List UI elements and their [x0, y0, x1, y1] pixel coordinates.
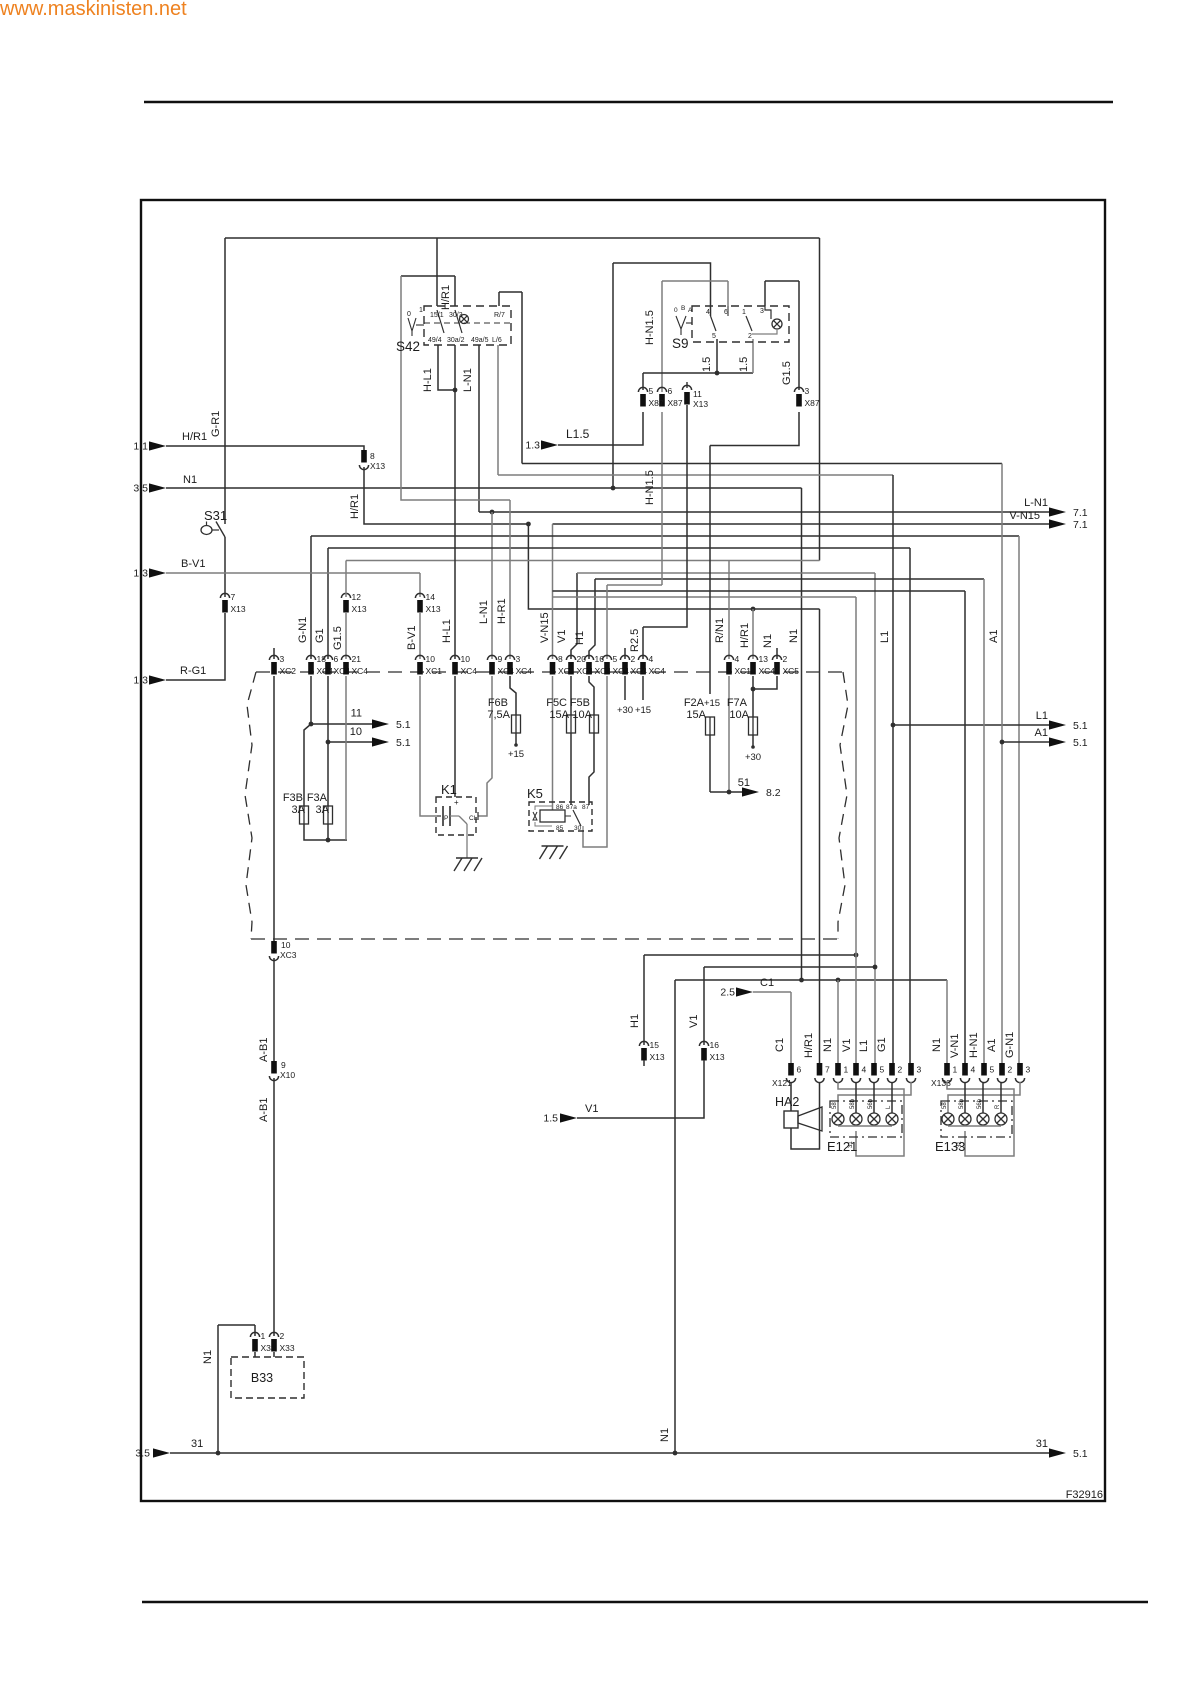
svg-text:5.1: 5.1: [1073, 737, 1088, 749]
svg-text:11: 11: [351, 708, 362, 720]
svg-text:86: 86: [556, 804, 564, 811]
svg-text:P: P: [444, 815, 448, 822]
svg-text:CL: CL: [469, 815, 478, 822]
svg-text:1: 1: [742, 309, 746, 316]
svg-text:G-N1: G-N1: [1004, 1032, 1016, 1058]
svg-text:G1.5: G1.5: [332, 626, 344, 650]
svg-text:14: 14: [426, 592, 436, 602]
svg-text:V-N15: V-N15: [1009, 510, 1040, 522]
svg-text:15A: 15A: [549, 709, 569, 721]
svg-text:21: 21: [352, 654, 362, 664]
svg-text:X13: X13: [370, 461, 385, 471]
svg-text:S42: S42: [396, 339, 420, 354]
svg-text:56b: 56b: [977, 1098, 983, 1109]
svg-text:R/N1: R/N1: [714, 618, 726, 643]
svg-text:X87: X87: [649, 398, 664, 408]
svg-text:A1: A1: [1035, 727, 1048, 739]
svg-text:31: 31: [957, 1141, 963, 1148]
svg-text:XC4: XC4: [631, 666, 648, 676]
svg-text:XC4: XC4: [516, 666, 533, 676]
svg-text:K5: K5: [527, 786, 543, 801]
svg-text:15A: 15A: [686, 709, 706, 721]
svg-text:87a: 87a: [566, 804, 577, 811]
svg-text:X10: X10: [280, 1070, 295, 1080]
svg-text:B-V1: B-V1: [181, 558, 205, 570]
svg-text:49/4: 49/4: [428, 337, 442, 344]
svg-text:1: 1: [953, 1065, 958, 1075]
svg-text:58b: 58b: [850, 1098, 856, 1109]
svg-text:B33: B33: [251, 1371, 273, 1385]
svg-text:H/R1: H/R1: [349, 494, 361, 519]
svg-text:15: 15: [650, 1040, 660, 1050]
svg-text:4: 4: [706, 309, 710, 316]
svg-text:2: 2: [631, 654, 636, 664]
svg-text:+30: +30: [745, 752, 761, 763]
svg-text:V1: V1: [556, 630, 568, 643]
svg-text:1.3: 1.3: [133, 675, 148, 687]
svg-text:2: 2: [783, 654, 788, 664]
svg-text:L/6: L/6: [492, 337, 502, 344]
svg-text:30/3: 30/3: [449, 312, 463, 319]
svg-text:N1: N1: [788, 629, 800, 643]
svg-text:5: 5: [649, 386, 654, 396]
svg-text:H-N1: H-N1: [968, 1032, 980, 1058]
svg-text:S31: S31: [204, 508, 227, 523]
svg-text:C1: C1: [760, 977, 774, 989]
svg-text:5: 5: [613, 654, 618, 664]
svg-text:7,5A: 7,5A: [487, 709, 510, 721]
svg-text:XC1: XC1: [735, 666, 752, 676]
svg-text:H/R1: H/R1: [739, 623, 751, 648]
svg-text:B-V1: B-V1: [406, 626, 418, 650]
svg-text:F2A: F2A: [684, 697, 705, 709]
svg-text:F6B: F6B: [488, 697, 508, 709]
svg-text:7: 7: [231, 592, 236, 602]
svg-text:X13: X13: [352, 604, 367, 614]
svg-text:H-N1.5: H-N1.5: [644, 470, 656, 505]
svg-text:8: 8: [558, 654, 563, 664]
svg-text:XC1: XC1: [426, 666, 443, 676]
svg-text:58b: 58b: [959, 1098, 965, 1109]
svg-text:N1: N1: [659, 1428, 671, 1442]
svg-text:12: 12: [352, 592, 362, 602]
svg-text:9: 9: [498, 654, 503, 664]
svg-text:N1: N1: [762, 634, 774, 648]
svg-text:7.1: 7.1: [1073, 507, 1088, 519]
svg-text:3: 3: [917, 1065, 922, 1075]
svg-text:8.2: 8.2: [766, 787, 781, 799]
svg-text:A-B1: A-B1: [258, 1038, 270, 1062]
svg-text:H1: H1: [574, 631, 586, 645]
svg-text:+30: +30: [617, 705, 633, 716]
svg-text:1: 1: [844, 1065, 849, 1075]
svg-text:G-R1: G-R1: [210, 411, 222, 437]
svg-text:18: 18: [317, 654, 327, 664]
svg-text:XC4: XC4: [759, 666, 776, 676]
svg-text:R2.5: R2.5: [629, 629, 641, 652]
svg-text:V-N1: V-N1: [949, 1034, 961, 1058]
svg-text:0: 0: [407, 311, 411, 318]
svg-text:+: +: [454, 798, 459, 807]
svg-text:15/1: 15/1: [430, 312, 444, 319]
svg-text:R-G1: R-G1: [180, 665, 206, 677]
svg-text:X121: X121: [772, 1078, 792, 1088]
svg-text:5.1: 5.1: [396, 719, 411, 731]
svg-text:A1: A1: [986, 1039, 998, 1052]
svg-text:31: 31: [848, 1141, 854, 1148]
svg-text:XC4: XC4: [461, 666, 478, 676]
svg-text:N1: N1: [931, 1038, 943, 1052]
svg-text:+15: +15: [704, 698, 720, 709]
svg-text:F32916: F32916: [1066, 1489, 1103, 1501]
svg-text:31: 31: [191, 1438, 203, 1450]
svg-text:X133: X133: [931, 1078, 951, 1088]
svg-text:XC3: XC3: [280, 950, 297, 960]
svg-text:8: 8: [370, 451, 375, 461]
svg-text:58: 58: [942, 1102, 948, 1109]
svg-text:3: 3: [760, 308, 764, 315]
svg-text:A1: A1: [988, 630, 1000, 643]
svg-text:49a/5: 49a/5: [471, 337, 489, 344]
svg-text:1.5: 1.5: [738, 357, 750, 372]
svg-text:G1.5: G1.5: [781, 361, 793, 385]
svg-text:3.5: 3.5: [133, 483, 148, 495]
svg-text:16: 16: [710, 1040, 720, 1050]
svg-text:H-N1.5: H-N1.5: [644, 310, 656, 345]
svg-text:F3A: F3A: [307, 792, 328, 804]
svg-text:+15: +15: [635, 705, 651, 716]
svg-text:N1: N1: [183, 474, 197, 486]
svg-text:3.5: 3.5: [135, 1448, 150, 1460]
svg-text:4: 4: [862, 1065, 867, 1075]
svg-text:10A: 10A: [729, 709, 749, 721]
svg-text:L1: L1: [879, 631, 891, 643]
svg-text:10: 10: [426, 654, 436, 664]
svg-text:4: 4: [649, 654, 654, 664]
svg-text:3: 3: [1026, 1065, 1031, 1075]
svg-text:www.maskinisten.net: www.maskinisten.net: [0, 0, 187, 20]
svg-text:5: 5: [880, 1065, 885, 1075]
svg-text:1: 1: [419, 307, 423, 314]
svg-text:11: 11: [693, 389, 702, 399]
svg-text:10A: 10A: [572, 709, 592, 721]
svg-text:H-L1: H-L1: [441, 619, 453, 643]
svg-text:HA2: HA2: [775, 1095, 799, 1109]
svg-text:10: 10: [350, 726, 362, 738]
svg-text:4: 4: [971, 1065, 976, 1075]
svg-text:X13: X13: [426, 604, 441, 614]
svg-text:L-N1: L-N1: [1024, 497, 1048, 509]
svg-text:X33: X33: [280, 1343, 295, 1353]
svg-text:V1: V1: [585, 1103, 598, 1115]
svg-text:2: 2: [748, 333, 752, 340]
svg-text:31: 31: [1036, 1438, 1048, 1450]
svg-text:30a/2: 30a/2: [447, 337, 465, 344]
svg-text:S9: S9: [672, 336, 689, 351]
svg-text:0: 0: [674, 307, 678, 314]
svg-text:H/R1: H/R1: [803, 1033, 815, 1058]
svg-text:3: 3: [280, 654, 285, 664]
svg-text:6: 6: [797, 1065, 802, 1075]
svg-text:X87: X87: [668, 398, 683, 408]
svg-text:G-N1: G-N1: [297, 617, 309, 643]
svg-text:XC4: XC4: [352, 666, 369, 676]
svg-text:56b: 56b: [868, 1098, 874, 1109]
svg-text:X13: X13: [693, 399, 708, 409]
svg-text:XC5: XC5: [783, 666, 800, 676]
svg-text:H/R1: H/R1: [182, 431, 207, 443]
svg-text:V-N15: V-N15: [539, 612, 551, 643]
svg-text:85: 85: [556, 825, 564, 832]
svg-text:5.1: 5.1: [396, 737, 411, 749]
svg-text:R/7: R/7: [494, 312, 505, 319]
svg-text:1: 1: [261, 1331, 266, 1341]
svg-text:A-B1: A-B1: [258, 1098, 270, 1122]
svg-text:X13: X13: [710, 1052, 725, 1062]
svg-text:B: B: [681, 305, 685, 312]
svg-text:87: 87: [582, 804, 590, 811]
svg-text:3: 3: [805, 386, 810, 396]
svg-text:5.1: 5.1: [1073, 1448, 1088, 1460]
svg-text:N1: N1: [822, 1038, 834, 1052]
svg-text:1.5: 1.5: [543, 1113, 558, 1125]
svg-text:L-N1: L-N1: [478, 600, 490, 624]
svg-text:V1: V1: [688, 1015, 700, 1028]
svg-text:9: 9: [281, 1060, 286, 1070]
svg-text:G1: G1: [876, 1037, 888, 1052]
svg-text:F7A: F7A: [727, 697, 748, 709]
svg-text:L1: L1: [858, 1040, 870, 1052]
svg-text:1.1: 1.1: [133, 441, 148, 453]
svg-text:51: 51: [738, 777, 750, 789]
svg-text:58: 58: [832, 1102, 838, 1109]
svg-text:V1: V1: [841, 1039, 853, 1052]
svg-text:X13: X13: [650, 1052, 665, 1062]
svg-text:5.1: 5.1: [1073, 720, 1088, 732]
svg-text:L1: L1: [1036, 710, 1048, 722]
svg-text:5: 5: [712, 333, 716, 340]
svg-text:N1: N1: [202, 1350, 214, 1364]
svg-text:X13: X13: [231, 604, 246, 614]
svg-text:L1.5: L1.5: [566, 427, 590, 441]
svg-text:6: 6: [334, 654, 339, 664]
svg-text:G1: G1: [314, 628, 326, 643]
svg-text:2: 2: [1008, 1065, 1013, 1075]
svg-text:1.5: 1.5: [701, 357, 713, 372]
svg-text:1.3: 1.3: [133, 568, 148, 580]
svg-text:A: A: [688, 307, 693, 314]
svg-text:K1: K1: [441, 782, 457, 797]
svg-text:2: 2: [280, 1331, 285, 1341]
svg-text:4: 4: [735, 654, 740, 664]
svg-text:13: 13: [759, 654, 769, 664]
svg-text:6: 6: [668, 386, 673, 396]
svg-text:7: 7: [825, 1065, 830, 1075]
svg-text:H-L1: H-L1: [422, 368, 434, 392]
svg-text:3A: 3A: [292, 804, 306, 816]
svg-text:3: 3: [516, 654, 521, 664]
svg-text:1.3: 1.3: [525, 440, 540, 452]
svg-text:X87: X87: [805, 398, 820, 408]
svg-text:10: 10: [461, 654, 471, 664]
svg-text:2.5: 2.5: [720, 987, 735, 999]
svg-text:+15: +15: [508, 749, 524, 760]
svg-text:7.1: 7.1: [1073, 519, 1088, 531]
svg-text:3A: 3A: [316, 804, 330, 816]
svg-text:2: 2: [898, 1065, 903, 1075]
svg-text:F3B: F3B: [283, 792, 303, 804]
svg-text:L-N1: L-N1: [462, 368, 474, 392]
svg-text:XC4: XC4: [649, 666, 666, 676]
svg-text:5: 5: [990, 1065, 995, 1075]
svg-text:XC2: XC2: [280, 666, 297, 676]
svg-text:H-R1: H-R1: [496, 598, 508, 624]
svg-text:C1: C1: [774, 1038, 786, 1052]
svg-text:10: 10: [281, 940, 291, 950]
svg-text:H1: H1: [629, 1014, 641, 1028]
svg-text:F5C: F5C: [546, 697, 567, 709]
svg-text:F5B: F5B: [570, 697, 590, 709]
svg-text:R: R: [995, 1104, 1001, 1109]
